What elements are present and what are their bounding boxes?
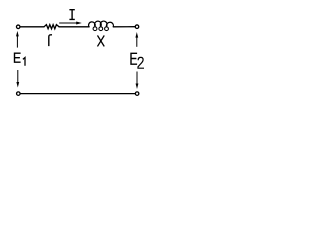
- terminal top-left: [16, 25, 20, 29]
- terminal top-right: [135, 25, 139, 29]
- wire top-left segment: [20, 26, 44, 28]
- label E1: [15, 53, 26, 65]
- label X: [98, 36, 104, 46]
- label E2: [131, 53, 143, 68]
- wire inductor to top-right terminal: [113, 26, 135, 28]
- wire between resistor and inductor: [59, 26, 89, 28]
- label r: [49, 35, 52, 46]
- E1 upper polarity arrow (points up): [16, 31, 19, 48]
- E2 lower polarity arrow (points down): [136, 72, 139, 90]
- E2 upper polarity arrow (points up): [135, 32, 138, 47]
- current arrow I: [59, 22, 82, 25]
- inductor X coil humps: [89, 21, 114, 27]
- bottom wire: [20, 93, 135, 95]
- terminal bottom-right: [135, 92, 139, 96]
- resistor r zigzag: [44, 25, 59, 29]
- label I: [70, 10, 74, 20]
- E1 lower polarity arrow (points down): [16, 70, 19, 88]
- inductor coil bottom loops: [93, 27, 97, 31]
- terminal bottom-left: [17, 92, 21, 96]
